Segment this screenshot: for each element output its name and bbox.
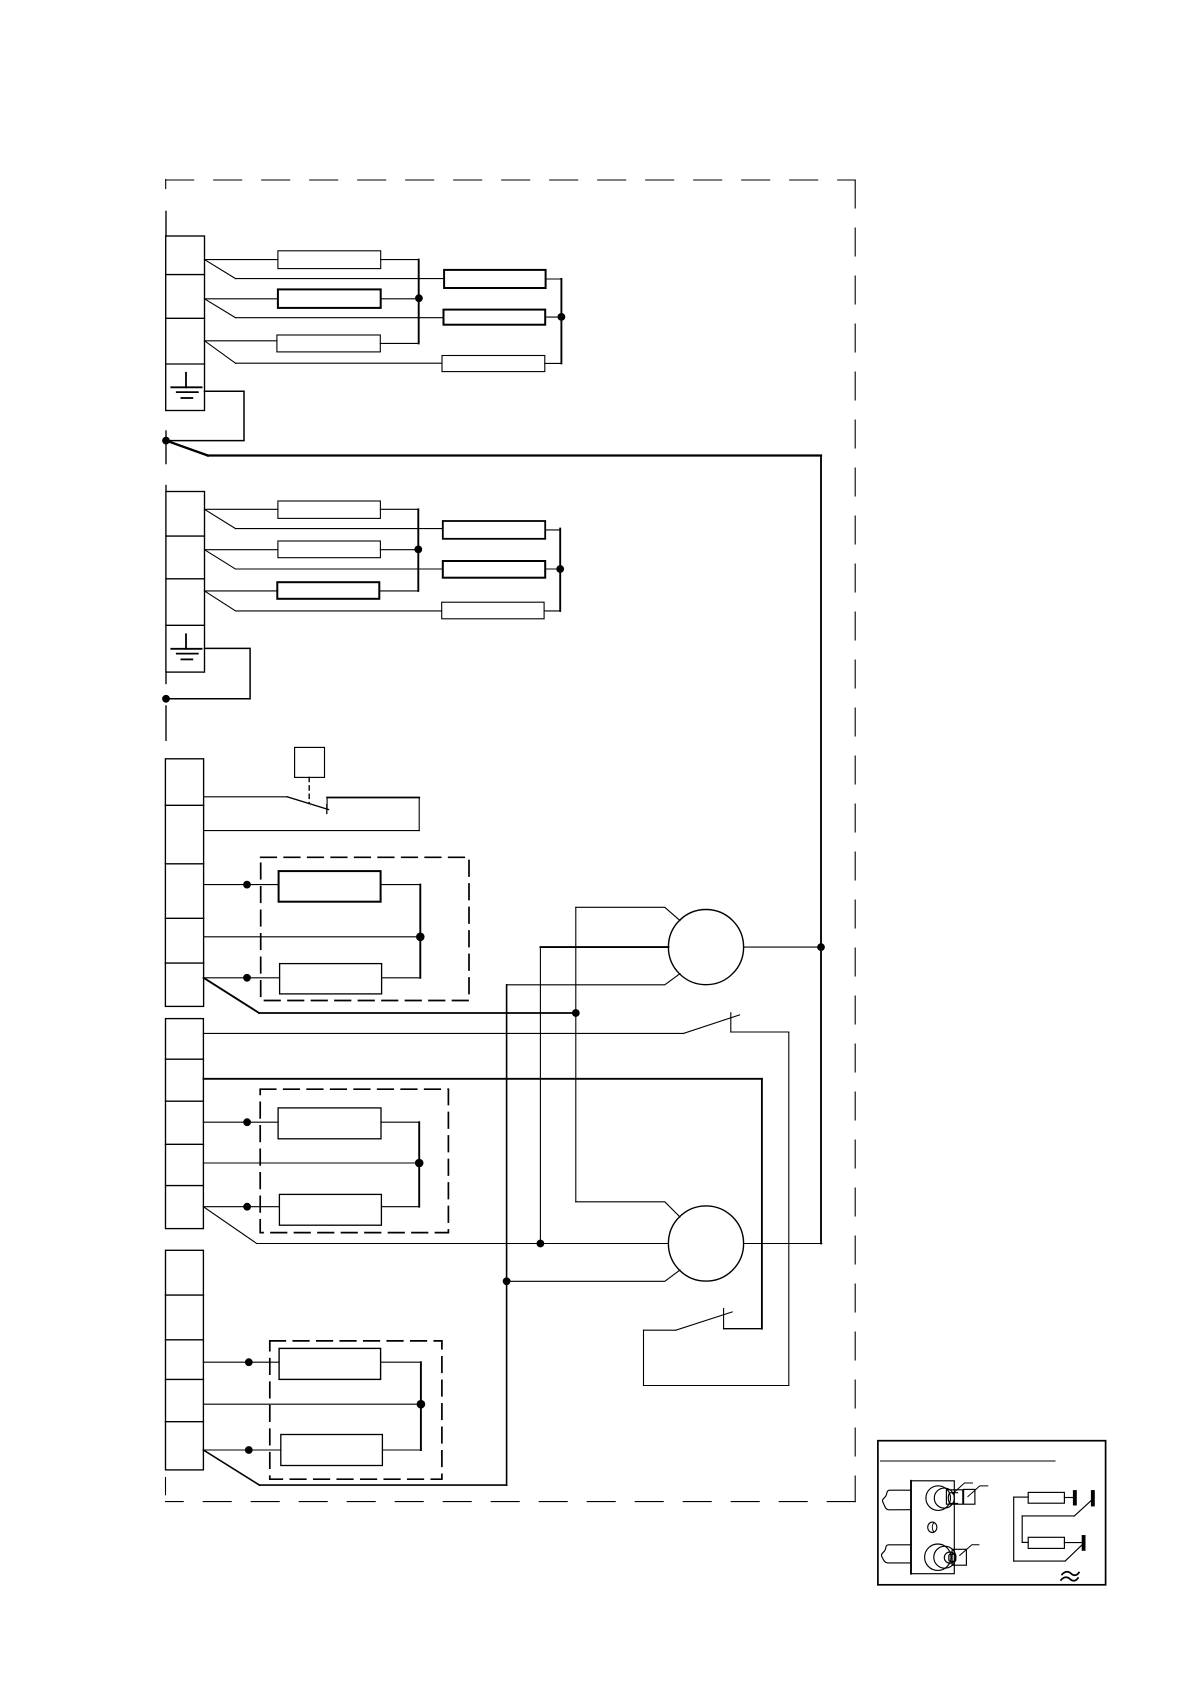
igniter lower lead ribbon <box>881 1545 911 1563</box>
wire: CN5 pin5 diagonal feed <box>203 1450 259 1485</box>
leader line 2 <box>968 1486 988 1497</box>
wire: R6 to right bus <box>545 362 562 364</box>
wire: CN5 pin3 to heater upper <box>203 1361 279 1363</box>
connector block CN4 outline <box>166 1019 204 1229</box>
contact bar 3 <box>1082 1535 1086 1551</box>
igniter upper lead ribbon <box>882 1490 911 1510</box>
connector CN1 cell divider 3 <box>166 363 205 365</box>
wire: CN3 pin5 diagonal feed <box>204 978 260 1013</box>
wire: CN5 heater bus vertical <box>420 1362 422 1450</box>
connector block CN3 outline <box>165 759 203 1007</box>
junction node on CN5 bus <box>417 1400 426 1409</box>
wire: R2 to left bus <box>381 298 419 300</box>
wire: CN2 pin3 to heater R9 <box>205 590 278 592</box>
wire: stub above CN2 <box>165 486 167 492</box>
junction node M2 middle <box>537 1240 545 1248</box>
connector CN3 cell divider 1 <box>165 804 203 806</box>
wire: R5 to right bus <box>545 316 561 318</box>
wire: SW1 feed rise to SW2 <box>643 1330 645 1385</box>
resistor (wash heater lower) <box>280 964 382 994</box>
connector CN5 cell divider 3 <box>166 1378 204 1380</box>
wire: node A diagonal to main line <box>166 441 208 456</box>
wire: loop bottom to CN3 pin2 <box>204 830 420 832</box>
igniter upper bushing inner <box>934 1488 954 1508</box>
wire: CN2 ground return <box>166 648 250 698</box>
wire: CN1 pin2 branch diagonal <box>205 299 236 318</box>
resistor R7 (heater element) <box>278 501 381 518</box>
wire: CN4 feed to motor M2 node <box>257 1243 541 1245</box>
wire: lower heater to bus <box>382 977 421 979</box>
igniter upper bushing outer <box>926 1486 951 1511</box>
leader line 1 <box>953 1483 973 1494</box>
resistor (dry heater upper) <box>278 1108 381 1139</box>
wire: to Rb <box>1022 1541 1028 1543</box>
centrifugal switch SW2 lever <box>676 1312 732 1330</box>
wire: M2 bottom winding lead <box>507 1270 680 1281</box>
wire: CN2 pin2 branch diagonal <box>205 550 236 569</box>
junction node on CN3 pin3 <box>243 881 251 889</box>
wire: lower heater to bus <box>382 1449 421 1451</box>
igniter lower terminal body <box>952 1549 966 1565</box>
outer dashed enclosure border (right) <box>854 180 856 1502</box>
wire: branch to heater R12 <box>236 610 442 612</box>
wire: Rb to contact <box>1064 1542 1081 1544</box>
igniter lower bushing outer <box>925 1544 951 1570</box>
wire: R7 to left bus <box>380 508 418 510</box>
connector block CN5 outline <box>166 1250 204 1470</box>
wire: M1 to supply bus <box>744 946 821 948</box>
wire: CN4 pin1 to pressure switch <box>203 1032 683 1034</box>
resistor (aux heater lower) <box>281 1435 383 1466</box>
wire: SW1 feed bottom run <box>644 1385 789 1387</box>
wire: left bus segment at node A <box>165 431 167 464</box>
wire: branch to heater R11 <box>236 568 443 570</box>
junction node on left bus <box>415 294 423 302</box>
pressure switch SW1 lever <box>684 1015 740 1034</box>
dashed box: aux heater assembly <box>270 1341 442 1479</box>
resistor R8 (heater element) <box>278 541 381 558</box>
wire: R4 to right bus <box>546 278 562 280</box>
wire: M2 top winding lead <box>576 1202 680 1217</box>
wire: SW1 feed down <box>788 1032 790 1386</box>
resistor R1 (heater element) <box>278 251 381 269</box>
wire: drop to Rb <box>1021 1516 1023 1543</box>
wire: R3 to left bus <box>380 342 418 344</box>
connector CN1 cell divider 1 <box>166 274 205 276</box>
connector CN1 cell divider 2 <box>166 317 205 319</box>
connector CN2 cell divider 3 <box>166 624 205 626</box>
wire: M1 top winding lead <box>576 907 680 920</box>
wire: CN4 pin5 diagonal feed <box>203 1207 256 1244</box>
tiny rotated label <box>1062 1572 1079 1576</box>
wire: main supply line to right bus bar <box>208 454 821 456</box>
wire: winding common vertical (middle) <box>539 947 541 1243</box>
igniter center hole <box>928 1522 937 1532</box>
wire: CN2 pin1 to heater R7 <box>205 508 278 510</box>
igniter plate left edge (bold) <box>910 1481 912 1574</box>
wire: R8 to left bus <box>380 549 418 551</box>
resistor R11 (heater element) <box>443 561 545 578</box>
resistor R3 (heater element) <box>277 335 380 352</box>
junction node on CN4 bus <box>415 1159 424 1168</box>
thermostat sensor box <box>295 747 325 777</box>
wire: CN3 pin4 to bus <box>204 936 421 938</box>
junction node on right bus <box>558 313 566 321</box>
dashed box: wash heater assembly <box>261 857 469 1000</box>
wire: stub above CN1 <box>165 211 167 236</box>
resistor R12 (heater element) <box>442 602 544 619</box>
wire: branch to heater R4 <box>236 278 445 280</box>
wire: CN5 pin4 to bus <box>203 1403 421 1405</box>
junction node on CN4 pin5 <box>243 1203 251 1211</box>
wire: CN4 pin2 main feed <box>203 1078 762 1080</box>
junction node on CN3 pin5 <box>243 974 251 982</box>
wire: CN1 pin3 to heater R3 <box>205 340 277 342</box>
wire: branch to heater R6 <box>236 362 443 364</box>
wire: CN2 pin2 to heater R8 <box>205 549 278 551</box>
inset resistor Ra <box>1028 1492 1064 1503</box>
junction node M1-bus <box>817 943 825 951</box>
wire: left bus vertical <box>418 260 420 344</box>
wire: Ra to contact <box>1064 1497 1073 1499</box>
wire: CN4 heater bus vertical <box>418 1122 420 1207</box>
connector CN4 cell divider 4 <box>166 1185 204 1187</box>
leader line 3 <box>960 1545 979 1556</box>
outer dashed enclosure border (top) <box>166 179 856 181</box>
connector block CN2 outline <box>166 492 205 673</box>
wire: upper heater to bus <box>381 1121 419 1123</box>
wire: CN4 pin4 to bus <box>203 1162 419 1164</box>
wire: lever run left <box>1022 1515 1074 1517</box>
igniter center hole highlight <box>932 1523 934 1532</box>
contact bar 2 <box>1091 1490 1095 1506</box>
wire: lower heater to bus <box>381 1206 419 1208</box>
contact bar 1 <box>1073 1490 1077 1505</box>
wire: M2 middle lead <box>540 1243 668 1245</box>
wire: CN5 feed bottom run <box>260 1484 507 1486</box>
connector CN4 cell divider 1 <box>166 1058 204 1060</box>
wire: SW1 feed to SW2 pivot <box>644 1329 676 1331</box>
wire: CN1 pin1 branch diagonal <box>205 260 236 279</box>
wire: R9 to left bus <box>379 590 418 592</box>
motor M2 <box>668 1206 743 1281</box>
resistor R5 (heater element) <box>444 310 546 325</box>
wire: CN2 left bus vertical <box>417 509 419 591</box>
resistor (dry heater lower) <box>279 1194 381 1225</box>
connector CN5 cell divider 1 <box>166 1294 204 1296</box>
wire: main feed down to SW2 contact <box>761 1079 763 1329</box>
ground symbol in CN1 <box>171 373 201 398</box>
wire: upper heater to bus <box>381 1361 421 1363</box>
igniter mounting plate <box>911 1481 954 1574</box>
wire: branch to heater R10 <box>236 528 443 530</box>
thermostat switch contact tick <box>326 805 328 814</box>
wire: R11 to right bus <box>545 568 560 570</box>
inset circuit left bus <box>1013 1497 1015 1561</box>
wire: inset bottom lead <box>1014 1560 1066 1562</box>
igniter lower bushing middle <box>934 1546 956 1568</box>
wire: SW1 fixed contact out <box>731 1031 789 1033</box>
wire: upper heater to bus <box>381 884 421 886</box>
wire: bus stub below CN2 <box>165 672 167 683</box>
igniter lower bushing inner <box>944 1552 955 1563</box>
wire: branch to heater R5 <box>236 317 444 319</box>
outer dashed enclosure border (bottom) <box>166 1501 856 1503</box>
wire: CN1 ground return <box>166 391 244 440</box>
igniter upper terminal tab <box>948 1493 957 1504</box>
wire: CN3 pin5 to lower heater <box>204 977 280 979</box>
pressure switch SW1 contact post <box>730 1013 732 1032</box>
wire: right bus vertical <box>560 279 562 363</box>
wire: CN2 pin3 branch diagonal <box>205 591 236 611</box>
wire: CN2 right bus vertical <box>559 529 561 611</box>
resistor R4 (heater element) <box>444 270 545 288</box>
resistor (wash heater upper) <box>279 871 381 902</box>
junction node on select vertical <box>572 1009 580 1017</box>
wire: SW2 fixed contact out <box>724 1328 762 1330</box>
wire: riser to motors common <box>506 985 508 1485</box>
connector CN4 cell divider 2 <box>166 1100 204 1102</box>
junction node B (neutral) <box>162 695 170 703</box>
junction node on CN5 pin3 <box>245 1358 253 1366</box>
igniter lower terminal slot <box>949 1554 956 1561</box>
wire: right vertical supply bus <box>820 456 822 1244</box>
resistor R10 (heater element) <box>443 521 545 539</box>
wire: CN3 pin1 to thermostat switch <box>204 796 288 798</box>
wire: CN4 pin3 to heater upper <box>203 1121 278 1123</box>
wire: thermostat to loop (top) <box>327 797 419 799</box>
thermostat switch fixed contact drop <box>326 798 328 810</box>
connector CN5 cell divider 2 <box>166 1339 204 1341</box>
outer dashed enclosure border (left, bottom segment) <box>165 1478 167 1495</box>
wire: M2 to supply bus <box>744 1243 822 1245</box>
wire: loop right side <box>418 798 420 831</box>
wire: CN1 pin1 to heater R1 <box>205 259 278 261</box>
connector CN2 cell divider 2 <box>166 578 205 580</box>
wire: inset top lead <box>1014 1496 1028 1498</box>
connector CN5 cell divider 4 <box>166 1421 204 1423</box>
junction node on CN2 right bus <box>556 565 564 573</box>
wire: R10 to right bus <box>545 529 560 531</box>
inset title rule <box>881 1460 1056 1462</box>
wire: R1 to left bus <box>381 259 419 261</box>
outer dashed enclosure border (left, top segment) <box>165 180 167 189</box>
contact lever from bar 3 <box>1065 1545 1081 1561</box>
igniter upper terminal body <box>946 1490 962 1504</box>
connector CN3 cell divider 3 <box>165 917 203 919</box>
junction node on CN5 pin5 <box>245 1446 253 1454</box>
wire: CN5 pin5 to heater lower <box>203 1449 280 1451</box>
wire: R12 to right bus <box>544 610 560 612</box>
wire: CN1 pin3 branch diagonal <box>205 341 236 363</box>
connector CN4 cell divider 3 <box>166 1143 204 1145</box>
inset resistor Rb <box>1028 1537 1064 1548</box>
resistor R2 (heater element) <box>278 289 381 308</box>
connector CN2 cell divider 1 <box>166 535 205 537</box>
dashed actuator link <box>308 777 310 803</box>
thermostat switch lever <box>287 797 329 810</box>
igniter upper terminal ferrule <box>964 1489 975 1504</box>
ground symbol in CN2 <box>171 634 201 659</box>
wire: CN3 feed to motor node <box>259 1012 576 1014</box>
junction node on CN2 left bus <box>414 546 422 554</box>
junction node M2 bottom <box>503 1277 511 1285</box>
junction node A (neutral) <box>162 437 170 445</box>
wire: M1 middle lead <box>540 946 668 948</box>
connector CN3 cell divider 2 <box>165 863 203 865</box>
wire: CN3 pin3 to wash heater <box>204 884 279 886</box>
contact lever from bar 2 <box>1074 1501 1091 1516</box>
wire: bus stub below node B <box>165 706 167 740</box>
wire: CN2 pin1 branch diagonal <box>205 509 236 528</box>
junction node on CN4 pin3 <box>243 1118 251 1126</box>
wire: CN1 pin2 to heater R2 <box>205 298 278 300</box>
wire: CN3 heater bus vertical <box>419 885 421 978</box>
dashed box: dry heater assembly <box>260 1089 448 1232</box>
wire: winding select vertical (top) <box>575 907 577 1202</box>
motor M1 <box>668 910 743 985</box>
resistor R9 (heater element) <box>277 582 379 599</box>
centrifugal switch SW2 contact post <box>723 1309 725 1329</box>
inset detail box <box>878 1441 1106 1585</box>
connector block CN1 outline <box>166 236 205 411</box>
connector CN3 cell divider 4 <box>165 962 203 964</box>
wire: CN4 pin5 to heater lower <box>203 1206 279 1208</box>
resistor R6 (heater element) <box>442 356 545 372</box>
resistor (aux heater upper) <box>279 1348 381 1379</box>
wire: M1 bottom winding lead <box>507 974 680 985</box>
junction node on CN3 bus <box>416 933 425 942</box>
